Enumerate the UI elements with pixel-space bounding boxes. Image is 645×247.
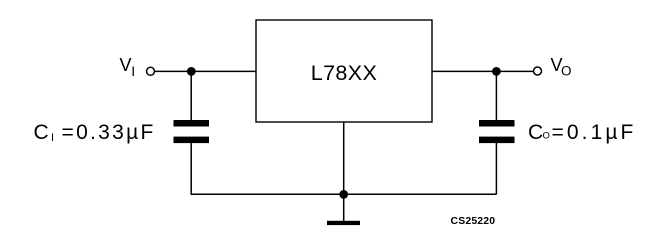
- svg-text:=0.1µF: =0.1µF: [552, 121, 637, 144]
- output terminal circle: [534, 67, 542, 75]
- regulator U1 body: [256, 20, 432, 122]
- svg-text:L78XX: L78XX: [311, 61, 378, 85]
- junction output node: [492, 67, 501, 76]
- wire input terminal to regulator input pin: [155, 70, 256, 72]
- svg-text:O: O: [543, 131, 550, 142]
- ground symbol: [327, 221, 360, 225]
- wire regulator ground pin down to ground: [343, 122, 345, 221]
- capacitor C2: [479, 120, 515, 143]
- svg-text:V: V: [120, 55, 132, 75]
- capacitor C2 value label: [528, 121, 636, 144]
- wire input node down to C1: [190, 71, 192, 120]
- svg-text:CS25220: CS25220: [451, 216, 496, 227]
- wire C1 down to ground rail: [190, 143, 192, 194]
- node VI label: [120, 55, 136, 79]
- capacitor C1: [174, 120, 210, 143]
- capacitor C1 value label: [34, 121, 156, 144]
- wire C2 down to ground rail: [495, 143, 497, 194]
- junction ground node: [339, 190, 348, 199]
- ground rail wire: [191, 193, 497, 195]
- wire regulator output pin to output terminal: [432, 70, 533, 72]
- svg-text:I: I: [51, 132, 54, 144]
- svg-text:C: C: [34, 121, 49, 144]
- node VO label: [551, 55, 572, 79]
- svg-text:I: I: [131, 63, 135, 79]
- junction input node: [187, 67, 196, 76]
- wire output node down to C2: [495, 71, 497, 120]
- svg-text:C: C: [528, 121, 543, 144]
- input terminal circle: [147, 67, 155, 75]
- svg-text:=0.33µF: =0.33µF: [62, 121, 156, 144]
- svg-text:O: O: [561, 64, 572, 79]
